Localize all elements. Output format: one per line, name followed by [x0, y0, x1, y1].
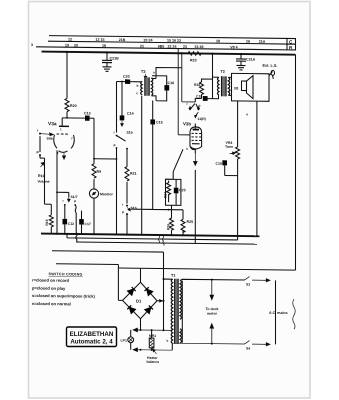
switch S1b contacts	[114, 81, 133, 149]
capacitor C15	[150, 101, 183, 211]
svg-text:21A: 21A	[259, 40, 266, 44]
output transformer T2	[213, 54, 232, 99]
svg-text:A.C. mains: A.C. mains	[269, 311, 288, 315]
svg-text:R22: R22	[194, 83, 200, 87]
wire: mains top	[164, 279, 245, 281]
svg-text:16: 16	[246, 40, 250, 44]
svg-text:c: c	[136, 91, 138, 95]
switch S4	[172, 340, 270, 346]
node R row box	[287, 44, 296, 50]
V3b cathode arrow down	[194, 153, 198, 165]
svg-text:C18: C18	[196, 94, 202, 98]
wire: bus L2	[67, 234, 238, 240]
svg-text:SWITCH CODING: SWITCH CODING	[49, 272, 83, 276]
wire: bus L3	[76, 242, 257, 244]
triode V3a	[48, 118, 74, 160]
legend switch coding	[32, 272, 96, 307]
svg-text:R9: R9	[97, 170, 102, 174]
svg-text:C17: C17	[85, 222, 91, 226]
svg-text:3: 3	[31, 43, 33, 47]
potentiometer VR4 tone	[216, 141, 240, 240]
resistor R26 below box	[167, 205, 174, 236]
resistor R9	[93, 118, 95, 164]
svg-text:V8 4: V8 4	[230, 45, 237, 49]
svg-text:21B: 21B	[119, 38, 126, 42]
pin number labels	[60, 69, 248, 151]
svg-text:ELIZABETHAN: ELIZABETHAN	[70, 331, 114, 338]
svg-text:Monitor: Monitor	[100, 192, 113, 196]
svg-text:s=closed on superimpose (trick: s=closed on superimpose (trick)	[32, 293, 96, 299]
svg-text:20: 20	[74, 43, 78, 47]
svg-text:S1b: S1b	[127, 131, 133, 135]
svg-text:R20: R20	[70, 104, 77, 108]
svg-text:15 16 23: 15 16 23	[167, 39, 181, 43]
junction dot rail/R20	[66, 51, 68, 53]
svg-text:21: 21	[140, 44, 144, 48]
svg-text:C19: C19	[216, 162, 222, 166]
svg-text:18: 18	[216, 39, 220, 43]
mains transformer T1	[167, 274, 182, 344]
svg-text:23: 23	[183, 45, 187, 49]
heater balance rheostat MR1	[147, 330, 160, 364]
svg-text:p: p	[122, 210, 124, 214]
svg-text:MR1: MR1	[149, 334, 156, 338]
tank circuit box with C16	[152, 76, 175, 101]
capacitor C21A to ground	[236, 53, 256, 70]
capacitor C20	[117, 74, 142, 84]
wire: motor box left edge	[181, 281, 183, 343]
svg-text:19: 19	[65, 43, 69, 47]
wire: speaker box bottoms	[256, 101, 258, 236]
switch contacts r/p above V3b	[187, 102, 201, 111]
svg-text:Ext. L.S.: Ext. L.S.	[263, 64, 278, 68]
svg-text:12 15: 12 15	[96, 38, 105, 42]
Ext. L.S. jack	[263, 64, 278, 79]
svg-text:T3: T3	[141, 70, 145, 74]
wire: loom drop to V3b grid	[178, 49, 190, 135]
switch S3	[245, 277, 271, 282]
wire: L3 riser to cathode arrow	[194, 170, 196, 244]
loom wire numbers row C	[68, 37, 266, 43]
capacitor C12 (electrolytic)	[63, 205, 75, 235]
wire: mains right vertical	[275, 280, 277, 344]
svg-text:R26: R26	[167, 224, 171, 230]
svg-text:R19: R19	[45, 219, 49, 225]
svg-text:D1: D1	[136, 299, 142, 304]
svg-text:11(R): 11(R)	[198, 117, 206, 121]
svg-text:r=closed on record: r=closed on record	[32, 277, 69, 282]
wire: HT top rail	[42, 52, 296, 55]
capacitor C17	[79, 211, 91, 236]
svg-text:p=closed on play: p=closed on play	[32, 285, 66, 290]
svg-text:motor: motor	[207, 312, 218, 316]
svg-text:S4: S4	[246, 347, 250, 351]
wire: p contact drop with jog	[75, 205, 77, 243]
torn edge squiggle	[293, 299, 296, 329]
potentiometer R11 volume	[38, 155, 50, 204]
wire: bridge right DC+	[157, 300, 164, 302]
heater bus top	[133, 328, 172, 332]
svg-text:9B5: 9B5	[158, 44, 165, 48]
svg-text:R21: R21	[130, 172, 137, 176]
bridge rectifier D1	[123, 282, 158, 319]
svg-text:R23: R23	[190, 58, 197, 62]
svg-text:12: 12	[68, 37, 72, 41]
resistor R23 (series in rail)	[188, 51, 201, 62]
svg-text:b: b	[137, 84, 139, 88]
wire: bus L4	[52, 251, 164, 252]
capacitor C14	[120, 81, 134, 127]
resistor R19	[45, 204, 54, 234]
pentode V3b	[183, 121, 202, 153]
wire: bottom ground rail	[41, 234, 260, 237]
wire: bridge top AC to P1	[140, 268, 142, 282]
svg-text:Automatic 2, 4: Automatic 2, 4	[70, 339, 113, 346]
resistor R21	[116, 148, 137, 236]
loom wire numbers row R	[31, 43, 238, 49]
svg-text:23 26: 23 26	[195, 45, 204, 49]
svg-text:V3a: V3a	[48, 121, 57, 127]
label To deck motor	[206, 307, 219, 316]
svg-text:To deck: To deck	[206, 307, 219, 311]
capacitor C21B to ground	[102, 51, 119, 71]
switch S1b/2 contacts	[122, 203, 137, 236]
svg-text:C20: C20	[123, 75, 130, 79]
speaker box	[232, 73, 270, 101]
resistor R20	[65, 98, 77, 111]
node C row box	[287, 38, 296, 44]
svg-text:T2: T2	[221, 70, 225, 74]
wire: bridge bottom to heater bus	[140, 319, 142, 330]
svg-text:22 24: 22 24	[168, 45, 177, 49]
svg-text:b: b	[167, 339, 169, 343]
wire: anode horizontal with C13	[62, 117, 94, 119]
resistor R25	[181, 210, 193, 237]
wire: bridge DC- vertical	[118, 265, 122, 301]
svg-text:S4b: S4b	[47, 137, 53, 141]
oscillator coil T3	[136, 70, 153, 96]
wire: loom band line middle	[48, 41, 287, 44]
svg-text:C21B: C21B	[110, 56, 120, 60]
wire: loom band line top	[49, 36, 287, 39]
grid cap arrow 11(R)	[195, 112, 206, 121]
svg-text:18: 18	[102, 44, 106, 48]
junction dot rail x212.5	[212, 53, 214, 55]
resistor R22 and capacitor C18	[194, 79, 213, 102]
svg-text:C14: C14	[127, 112, 134, 116]
wire: speaker box to tone control	[237, 101, 239, 146]
resistor R24 and capacitor C23 parallel box	[164, 149, 186, 205]
junction dot rail x181	[181, 52, 183, 54]
capacitor C13 (series)	[84, 111, 91, 120]
wire: V3a anode feed	[66, 52, 68, 99]
wire: R9 top to switch column	[92, 158, 117, 189]
wire: right border vertical	[295, 55, 297, 271]
wire: tank top tap to anode drop	[156, 67, 182, 76]
svg-text:C12: C12	[68, 222, 74, 226]
wire: y208 horizontal left stub	[129, 208, 153, 210]
svg-text:R25: R25	[187, 220, 194, 224]
motor arrows	[210, 280, 214, 300]
wire: loom band line bottom	[36, 47, 287, 50]
svg-text:C16: C16	[168, 81, 175, 85]
svg-text:n=closed on normal: n=closed on normal	[32, 301, 71, 306]
wire: V3a cathode down	[56, 150, 58, 234]
svg-text:C23: C23	[179, 188, 186, 192]
svg-text:T1: T1	[171, 274, 175, 278]
svg-text:R11: R11	[38, 174, 44, 178]
wire: HT horizontal P1 to bridge	[118, 268, 295, 270]
switch S1/7	[57, 192, 78, 206]
svg-text:C21A: C21A	[246, 58, 256, 62]
pilot lamp LP1	[121, 330, 134, 350]
svg-text:3Ω: 3Ω	[234, 86, 239, 90]
svg-text:V3b: V3b	[183, 121, 191, 126]
svg-text:p: p	[114, 143, 116, 147]
wire: s-jog crossings	[158, 235, 159, 243]
svg-text:C13: C13	[84, 111, 91, 115]
switch contact r / S4b at V3a grid	[37, 129, 54, 157]
svg-text:Volume: Volume	[38, 180, 50, 184]
svg-text:C15: C15	[156, 120, 163, 124]
wire: HT/heater vertical x163.5	[163, 252, 165, 330]
svg-text:S3: S3	[246, 283, 250, 287]
heater bus bottom	[133, 348, 172, 352]
svg-text:20 24: 20 24	[144, 38, 153, 42]
title box (unskewed)	[67, 327, 117, 347]
wire: rail drop to V3b anode switch	[182, 53, 196, 102]
svg-text:p: p	[74, 199, 76, 203]
svg-text:Tone: Tone	[225, 145, 233, 149]
svg-text:R24: R24	[164, 192, 168, 198]
monitor jack	[89, 189, 113, 236]
wire: anode node	[66, 112, 68, 118]
svg-text:balance: balance	[147, 360, 160, 364]
wire: HT feed horizontal above legend	[56, 263, 118, 266]
svg-text:LP1: LP1	[121, 339, 127, 343]
wire: T3 winding bottom to bottom rail	[141, 96, 143, 235]
